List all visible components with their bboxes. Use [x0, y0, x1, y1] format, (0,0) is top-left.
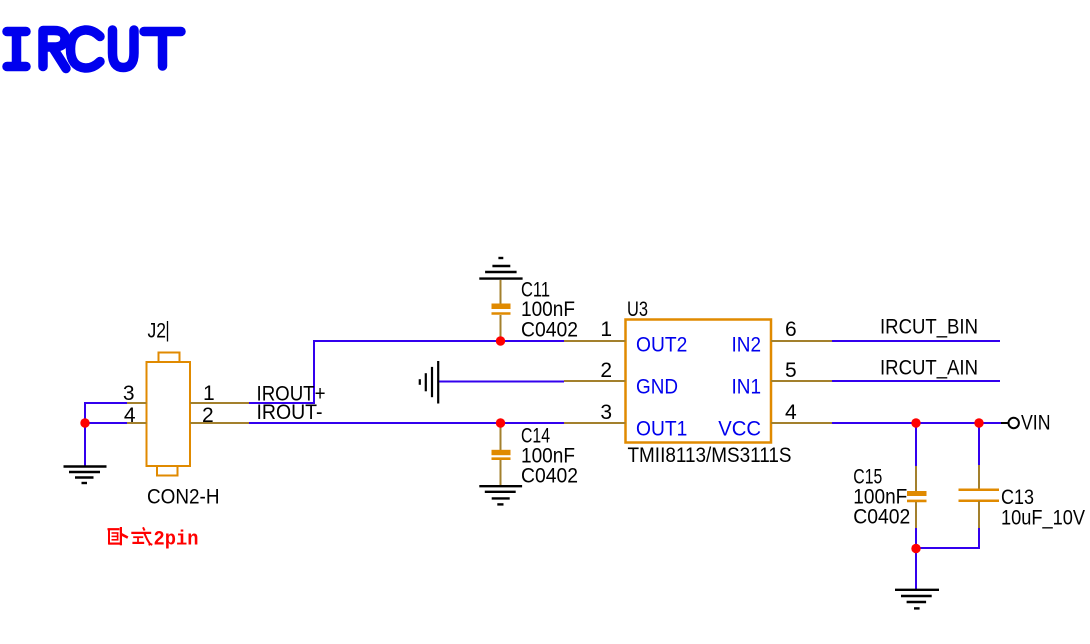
wire C15 bottom	[915, 527, 917, 549]
red note hanzi WO (lying)	[108, 527, 128, 545]
text cursor after J2	[167, 321, 169, 342]
svg-text:1: 1	[203, 382, 215, 405]
ground below C15/C13	[895, 590, 939, 609]
svg-text:2: 2	[202, 404, 214, 427]
svg-text:C0402: C0402	[853, 505, 910, 528]
wire J2 pin3 to ground corner	[85, 403, 127, 466]
ground below C14	[479, 486, 522, 504]
svg-text:C0402: C0402	[521, 465, 578, 488]
wire VIN net	[832, 422, 1001, 424]
title IRCUT	[7, 30, 181, 69]
pin 3 of U3	[564, 401, 626, 424]
junction dot VIN/C15	[911, 418, 920, 427]
wire C15 top	[915, 423, 917, 467]
VIN terminal stub	[1001, 422, 1008, 424]
svg-text:J2: J2	[148, 320, 167, 343]
capacitor C11	[492, 280, 511, 341]
junction dot C15/C13 ground	[911, 544, 920, 553]
wire junction to ground	[915, 548, 917, 589]
wire C13 bottom	[916, 527, 979, 548]
pin 5 of U3	[771, 359, 832, 382]
pin 1 of J2	[190, 382, 249, 405]
ground at J2	[64, 467, 107, 484]
svg-text:IN1: IN1	[732, 376, 762, 399]
svg-text:4: 4	[785, 401, 797, 424]
power ground above C11 (inverted)	[479, 258, 522, 279]
svg-text:2: 2	[600, 359, 612, 382]
svg-text:2pin: 2pin	[154, 529, 199, 552]
IC U3 body	[626, 320, 772, 443]
red note hanzi SHI (style)	[131, 527, 152, 545]
svg-text:3: 3	[123, 382, 135, 405]
pin 3 of J2	[123, 382, 147, 405]
svg-text:IRCUT_BIN: IRCUT_BIN	[880, 316, 978, 339]
connector J2	[147, 353, 191, 476]
svg-text:VIN: VIN	[1021, 411, 1051, 434]
wire IRCUT_AIN net	[832, 380, 1000, 382]
svg-text:IROUT-: IROUT-	[257, 401, 323, 424]
capacitor C13	[959, 465, 1000, 528]
junction dot IROUT+/C11	[496, 336, 505, 345]
svg-text:1: 1	[600, 318, 612, 341]
pin 6 of U3	[771, 318, 832, 341]
junction dot J2 ground	[80, 418, 89, 427]
pin 4 of U3	[771, 401, 832, 424]
svg-text:VCC: VCC	[718, 417, 761, 440]
wire GND net to U3 pin2	[438, 381, 564, 383]
capacitor C14	[492, 423, 511, 487]
svg-text:3: 3	[600, 401, 612, 424]
pin 2 of U3	[564, 359, 626, 382]
ground symbol left of U3 pin2 (rotated)	[420, 361, 438, 404]
pin 1 of U3	[564, 318, 626, 341]
wire IROUT- net (J2 pin2 to U3 pin3)	[249, 422, 564, 424]
svg-text:C0402: C0402	[521, 319, 578, 342]
svg-text:4: 4	[124, 404, 136, 427]
svg-text:OUT2: OUT2	[636, 334, 687, 357]
svg-text:TMII8113/MS3111S: TMII8113/MS3111S	[628, 444, 792, 467]
wire IROUT+ net (J2 pin1 to U3 pin1)	[249, 341, 564, 403]
junction dot VIN/C13	[974, 418, 983, 427]
svg-text:C13: C13	[1001, 486, 1034, 509]
svg-text:10uF_10V: 10uF_10V	[1001, 507, 1085, 530]
svg-text:IRCUT_AIN: IRCUT_AIN	[880, 356, 978, 379]
pin 2 of J2	[190, 404, 249, 427]
wire C13 top	[978, 423, 980, 466]
wire IRCUT_BIN net	[832, 340, 1000, 342]
wire J2 pin4	[85, 422, 127, 424]
svg-text:U3: U3	[627, 298, 648, 321]
svg-text:6: 6	[785, 318, 797, 341]
capacitor C15	[907, 466, 927, 528]
svg-text:CON2-H: CON2-H	[147, 486, 220, 509]
junction dot IROUT-/C14	[496, 418, 505, 427]
VIN terminal circle	[1009, 418, 1019, 428]
svg-text:GND: GND	[636, 376, 678, 399]
svg-text:IN2: IN2	[732, 334, 762, 357]
pin 4 of J2	[124, 404, 147, 427]
svg-text:5: 5	[785, 359, 797, 382]
svg-text:OUT1: OUT1	[636, 417, 687, 440]
